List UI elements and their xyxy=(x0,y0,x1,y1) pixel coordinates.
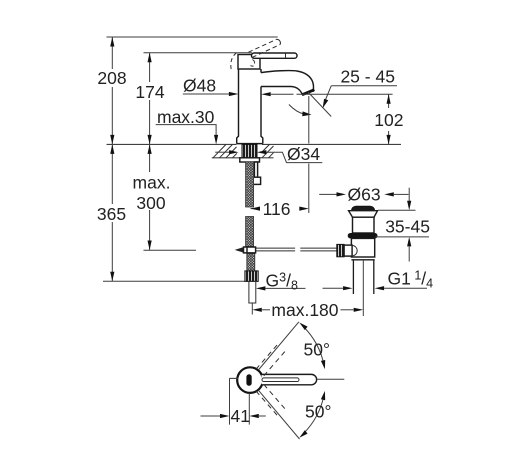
top view lever xyxy=(262,374,317,384)
extension line 365 bottom (hose nut end) xyxy=(103,280,245,282)
lower arc arrowheads xyxy=(321,391,325,400)
cartridge cap xyxy=(238,55,260,70)
extension lines 35-45 xyxy=(378,209,416,211)
dimension 365 line xyxy=(110,144,114,281)
pop-up rod xyxy=(256,248,337,251)
washer under counter xyxy=(240,158,260,162)
spout outlet level reference line (102 top) xyxy=(297,93,393,95)
countertop hatching right xyxy=(262,144,274,157)
lower 50 arc xyxy=(303,394,324,434)
dimension Ø34 leader xyxy=(215,150,322,163)
label G3/8 with leader arrow xyxy=(256,286,306,290)
drain body bottom lines xyxy=(351,259,374,261)
cap detail arcs xyxy=(251,60,255,67)
dimension 174 line xyxy=(148,53,152,145)
adjustable stream diagonal line xyxy=(308,92,331,117)
countertop bottom line xyxy=(212,157,240,159)
dimension max.300 line xyxy=(148,144,152,250)
lever solid xyxy=(252,53,298,58)
upper 50 arc xyxy=(303,326,324,366)
drain inlet block xyxy=(344,245,352,256)
spout xyxy=(261,71,313,95)
svg-text:365: 365 xyxy=(97,204,126,224)
flexible hose braided lower xyxy=(247,254,255,271)
svg-text:Ø34: Ø34 xyxy=(287,144,320,164)
top view lever pin xyxy=(246,374,251,386)
flexible hose braided middle xyxy=(246,217,254,247)
upper arc arrowheads xyxy=(321,360,325,369)
svg-text:Ø48: Ø48 xyxy=(183,76,216,96)
dimension max.180 xyxy=(252,308,363,312)
drain tailpipe xyxy=(353,260,373,294)
drain lower body xyxy=(351,238,374,257)
countertop top line xyxy=(107,143,237,145)
svg-text:max.: max. xyxy=(133,173,171,193)
svg-text:41: 41 xyxy=(231,406,250,426)
fixing stud xyxy=(254,162,257,177)
svg-text:50°: 50° xyxy=(304,339,330,359)
svg-text:208: 208 xyxy=(97,68,126,88)
extension line max.180 left (faucet axis) xyxy=(251,303,253,315)
leader arrow from 25-45 to stream line xyxy=(323,86,332,108)
svg-text:max.180: max.180 xyxy=(271,300,338,320)
extension line max.300 bottom (pop-up rod level) xyxy=(144,249,197,251)
svg-text:25 - 45: 25 - 45 xyxy=(340,67,394,87)
drain flange cone xyxy=(349,211,378,218)
dimension 116 xyxy=(251,207,309,211)
dimension Ø63 xyxy=(319,192,408,196)
lower dashed lever position xyxy=(256,384,287,417)
drain pop-up waste: dome cap xyxy=(351,206,374,211)
G3/8 thread stub xyxy=(249,281,256,303)
fixing wedge block xyxy=(253,177,260,184)
svg-text:102: 102 xyxy=(374,110,403,130)
top view lever slot xyxy=(262,378,299,382)
svg-text:Ø63: Ø63 xyxy=(348,185,381,205)
extension line spout outlet vertical (116 right) xyxy=(308,96,310,213)
extension lines 41 xyxy=(229,378,231,424)
pop-up rod clamp xyxy=(236,247,256,253)
curved arrow to stream line xyxy=(289,105,312,117)
spout outlet face (aerator) xyxy=(302,90,314,95)
lever swing dashed arc left of cap xyxy=(231,53,237,70)
extension line top (208 ref, lever raised tip) xyxy=(107,36,278,38)
svg-text:35-45: 35-45 xyxy=(385,216,430,236)
upper dashed lever position xyxy=(256,343,287,376)
flexible hose braided upper xyxy=(246,162,254,207)
svg-text:300: 300 xyxy=(136,193,165,213)
top view faucet circle xyxy=(237,367,263,393)
svg-text:174: 174 xyxy=(135,82,164,102)
lower 50 ray xyxy=(258,390,299,439)
drain o-ring seal xyxy=(348,233,378,238)
lever raised dashed xyxy=(249,39,281,57)
faucet body xyxy=(237,69,263,144)
G3/8 hose nut xyxy=(245,271,258,282)
upper 50 ray xyxy=(258,322,299,370)
extension line (174 ref, lever top) xyxy=(144,52,253,54)
dimension G1 1/4 arrows xyxy=(323,286,428,290)
dimension 102 xyxy=(387,94,391,144)
dimension 208 line xyxy=(110,37,114,144)
svg-text:116: 116 xyxy=(263,199,291,219)
svg-text:50°: 50° xyxy=(305,402,331,422)
mounting shank threaded through counter xyxy=(242,144,257,157)
dimension Ø48 xyxy=(183,76,294,97)
dimension 41 xyxy=(201,414,266,418)
countertop hatching left xyxy=(213,144,237,157)
dimension 35-45 xyxy=(407,188,411,262)
top view left tick xyxy=(229,377,238,379)
drain inlet inner curve xyxy=(352,245,357,256)
top view axis line right xyxy=(317,378,345,380)
drain inlet knurled nut xyxy=(337,244,344,256)
drain centerline extension xyxy=(362,260,364,316)
drain upper body xyxy=(353,217,375,233)
